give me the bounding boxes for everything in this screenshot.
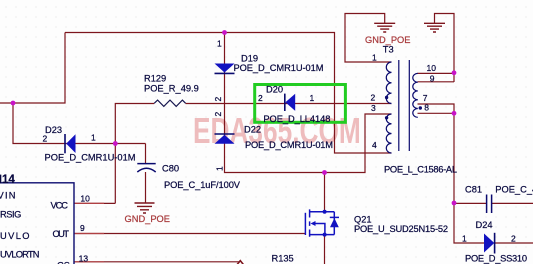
svg-text:1: 1: [310, 93, 315, 103]
svg-text:GND_POE: GND_POE: [365, 35, 410, 45]
svg-text:1: 1: [91, 133, 96, 143]
svg-text:D22: D22: [244, 125, 261, 135]
svg-text:Q21: Q21: [354, 215, 372, 225]
svg-text:C80: C80: [162, 164, 179, 174]
svg-text:POE_C_1uF/100V: POE_C_1uF/100V: [164, 180, 241, 190]
svg-text:OUT: OUT: [53, 229, 70, 239]
svg-text:POE_D_SS310: POE_D_SS310: [465, 254, 527, 264]
svg-text:GND_POE: GND_POE: [125, 214, 170, 224]
svg-text:R135: R135: [272, 254, 294, 264]
svg-text:1: 1: [215, 166, 225, 171]
svg-text:R129: R129: [144, 74, 166, 84]
svg-text:9: 9: [80, 223, 85, 233]
svg-text:14: 14: [2, 174, 15, 186]
svg-text:1: 1: [217, 39, 222, 49]
svg-text:7: 7: [423, 93, 428, 103]
svg-text:D23: D23: [45, 125, 62, 135]
svg-text:10: 10: [80, 194, 90, 204]
svg-text:POE_D_CMR1U-01M: POE_D_CMR1U-01M: [234, 63, 324, 73]
svg-text:T3: T3: [383, 45, 394, 55]
svg-text:2: 2: [258, 93, 263, 103]
svg-text:2: 2: [511, 234, 516, 244]
svg-text:10: 10: [427, 63, 437, 73]
svg-text:POE_D_CMR1U-01M: POE_D_CMR1U-01M: [245, 140, 333, 150]
svg-text:D24: D24: [476, 220, 493, 230]
svg-text:POE_D_LL4148: POE_D_LL4148: [263, 114, 330, 124]
svg-text:2: 2: [371, 93, 376, 103]
svg-text:2: 2: [213, 97, 223, 102]
svg-text:POE_R_49.9: POE_R_49.9: [144, 84, 199, 94]
svg-text:VCC: VCC: [51, 201, 69, 211]
svg-text:RSIG: RSIG: [0, 210, 21, 220]
svg-text:1: 1: [462, 234, 467, 244]
svg-text:3: 3: [371, 103, 376, 113]
svg-text:2: 2: [43, 134, 48, 144]
svg-text:13: 13: [79, 254, 89, 264]
svg-text:1: 1: [372, 53, 377, 63]
svg-text:CS: CS: [57, 260, 70, 264]
svg-text:UVLORTN: UVLORTN: [0, 250, 40, 260]
svg-text:POE_U_SUD25N15-52: POE_U_SUD25N15-52: [354, 224, 448, 234]
svg-text:4: 4: [372, 140, 377, 150]
svg-text:POE_D_CMR1U-01M: POE_D_CMR1U-01M: [45, 152, 136, 162]
svg-text:POE_L_C1586-AL: POE_L_C1586-AL: [384, 165, 457, 175]
svg-text:D20: D20: [266, 84, 283, 94]
svg-text:C81: C81: [465, 185, 482, 195]
svg-text:POE_C_470uF/25V: POE_C_470uF/25V: [495, 185, 533, 195]
svg-text:UVLO: UVLO: [0, 231, 30, 241]
svg-text:2: 2: [213, 112, 223, 117]
svg-text:8: 8: [424, 103, 429, 113]
svg-text:9: 9: [430, 74, 435, 84]
svg-text:VIN: VIN: [0, 190, 16, 200]
svg-text:D19: D19: [241, 53, 258, 63]
